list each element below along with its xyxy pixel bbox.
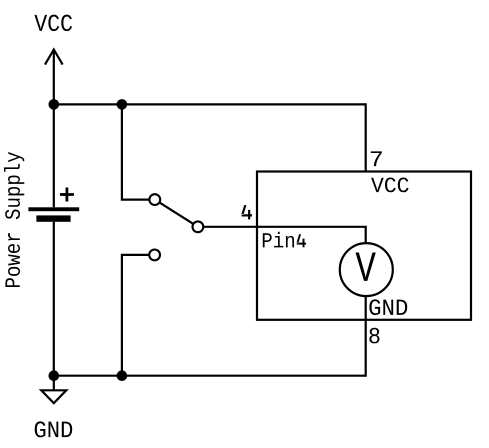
battery BT1 (Power Supply) positive plate: [28, 207, 79, 211]
junction bottom-left: [49, 370, 60, 381]
wire switch pole to pin 4: [198, 226, 367, 228]
wire switch throw B to ground rail: [122, 255, 155, 376]
voltmeter letter V: [356, 252, 376, 280]
junction bottom-mid: [117, 370, 128, 381]
pin label VCC: [371, 178, 409, 193]
wire pin 4 down to voltmeter: [365, 227, 367, 243]
pin number 7: [371, 151, 382, 166]
power symbol VCC arrow: [45, 50, 63, 105]
switch SW1 blade: [155, 200, 198, 227]
label GND (bottom net name): [35, 421, 73, 437]
pin label GND: [369, 299, 407, 315]
wire battery to bottom rail: [53, 222, 55, 376]
pin label Pin4: [263, 232, 306, 248]
pin number 4: [241, 205, 252, 219]
wire VCC rail down to switch throw A: [122, 104, 155, 199]
wire voltmeter to pin 8 and ground rail: [365, 297, 367, 377]
battery BT1 negative plate: [36, 215, 70, 221]
junction top-left: [49, 99, 60, 110]
junction top-mid: [117, 99, 128, 110]
voltmeter V1 body: [340, 243, 393, 296]
wire VCC to battery: [53, 104, 55, 207]
wire top rail: [54, 103, 366, 105]
switch SW1 contact circles: [149, 194, 203, 260]
ground: [41, 376, 66, 404]
label Power Supply: [4, 152, 24, 287]
pin number 8: [369, 328, 379, 344]
wire bottom rail: [54, 375, 366, 377]
IC U1 box: [257, 172, 471, 320]
label VCC (top net name): [34, 15, 72, 32]
battery plus polarity mark: [60, 188, 74, 202]
wire pin 7: [365, 103, 367, 171]
